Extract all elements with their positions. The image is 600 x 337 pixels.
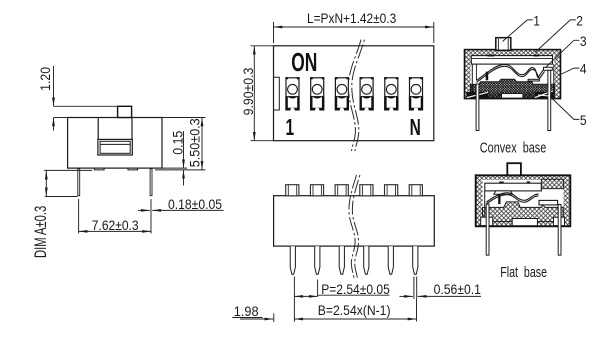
dimension DIM A±0.3 <box>32 170 93 258</box>
slider (side view) <box>98 139 132 155</box>
lid tick left <box>487 55 494 57</box>
svg-text:Flat base: Flat base <box>500 263 547 280</box>
dimension 0.18±0.05 <box>138 196 224 212</box>
top right hatch block <box>541 179 563 189</box>
pin 5 <box>388 246 393 274</box>
cover lid <box>485 183 542 191</box>
dimension 9.90±0.3 <box>240 46 273 141</box>
svg-text:ON: ON <box>291 47 317 76</box>
fixed contact plateau <box>544 67 553 70</box>
svg-text:1.98: 1.98 <box>234 304 259 320</box>
switch position 3 <box>335 77 349 110</box>
base bottom left block <box>466 92 488 98</box>
svg-text:0.56±0.1: 0.56±0.1 <box>434 281 481 297</box>
dimension 1.20 <box>37 66 117 131</box>
svg-text:1: 1 <box>286 115 295 141</box>
switch body (side view) <box>68 118 162 169</box>
svg-text:B=2.54x(N-1): B=2.54x(N-1) <box>318 302 391 318</box>
inner wall left <box>471 64 473 92</box>
mounting feet <box>95 168 138 170</box>
side tab <box>274 77 280 110</box>
dimension 0.15 <box>162 131 187 186</box>
dimension 1.98 <box>232 304 274 322</box>
dimension 7.62±0.3 <box>79 199 151 234</box>
contact blade <box>477 64 545 82</box>
inner wall left <box>484 191 486 217</box>
svg-text:9.90±0.3: 9.90±0.3 <box>240 68 256 116</box>
pin right (section) <box>548 70 551 130</box>
moulded base (dense hatch) <box>471 79 555 97</box>
svg-text:4: 4 <box>580 61 587 77</box>
platform <box>494 191 513 194</box>
svg-text:5: 5 <box>580 112 587 128</box>
svg-text:L=PxN+1.42±0.3: L=PxN+1.42±0.3 <box>307 10 396 26</box>
knob 3 <box>335 185 348 196</box>
pin 6 <box>413 246 418 274</box>
switch position 5 <box>384 77 398 110</box>
svg-text:1.20: 1.20 <box>37 67 53 91</box>
housing shell (hatched) <box>476 175 571 226</box>
switch position 2 <box>310 77 324 110</box>
switch body (front view) <box>274 46 434 141</box>
svg-text:1: 1 <box>533 13 540 29</box>
base center recess <box>502 94 523 99</box>
knob 4 <box>360 185 373 196</box>
slider cavity walls <box>98 118 132 139</box>
cavity <box>471 55 555 92</box>
dimension L=PxN+1.42±0.3 <box>274 10 434 43</box>
base bottom right block <box>535 92 554 98</box>
cover lid <box>471 56 552 65</box>
svg-text:3: 3 <box>580 33 587 49</box>
callout 5 <box>538 95 587 128</box>
switch position 6 <box>409 77 423 110</box>
break line (pin view) <box>349 175 360 278</box>
dimension 5.50±0.3 <box>155 118 206 170</box>
base center recess <box>512 219 537 226</box>
actuator knob (side view) <box>118 106 132 117</box>
dimension B=2.54x(N-1) <box>294 299 416 322</box>
knob 1 <box>286 185 299 196</box>
inner wall right <box>553 64 555 92</box>
svg-text:DIM A±0.3: DIM A±0.3 <box>32 206 51 258</box>
terminal post <box>498 194 500 204</box>
switch position 1 <box>285 77 299 110</box>
dimension 0.56±0.1 <box>400 277 482 300</box>
terminal post <box>486 72 489 81</box>
inner wall left 2 <box>475 64 477 80</box>
switch body (pin view) <box>274 196 435 246</box>
pin 3 <box>339 246 344 274</box>
pin left (section) <box>476 84 479 131</box>
svg-text:7.62±0.3: 7.62±0.3 <box>92 217 139 233</box>
callout 1 <box>503 13 540 42</box>
svg-text:5.50±0.3: 5.50±0.3 <box>187 118 203 167</box>
dimension P=2.54±0.05 <box>294 277 389 322</box>
base corner recess left <box>481 217 493 225</box>
svg-text:0.15: 0.15 <box>170 131 186 155</box>
knob 5 <box>385 185 398 196</box>
pin right (section) <box>558 205 561 256</box>
foot parting line right <box>535 91 553 98</box>
pin left (side view) <box>78 169 80 196</box>
pin right (side view) <box>150 169 152 196</box>
base corner recess right <box>554 217 565 225</box>
callout 2 <box>535 13 583 53</box>
cavity <box>483 180 564 222</box>
pin 1 <box>290 246 295 274</box>
housing shell (hatched) <box>465 50 561 99</box>
actuator knob (section) <box>507 163 521 175</box>
pin 2 <box>315 246 320 274</box>
svg-text:Convex base: Convex base <box>480 139 546 156</box>
foot parting line left <box>467 92 488 97</box>
switch position 4 <box>360 77 374 110</box>
terminal strip <box>528 79 539 81</box>
callout 4 <box>559 61 587 77</box>
fixed contact bracket <box>539 200 558 205</box>
svg-text:0.18±0.05: 0.18±0.05 <box>168 196 222 212</box>
svg-text:P=2.54±0.05: P=2.54±0.05 <box>321 281 390 297</box>
pin 4 <box>364 246 369 274</box>
svg-text:N: N <box>410 115 421 141</box>
actuator knob (section) <box>496 38 511 51</box>
knob 6 <box>409 185 422 196</box>
contact blade <box>486 193 538 204</box>
lid tick <box>499 182 503 184</box>
break line (front view) <box>348 40 364 151</box>
pin left (section) <box>486 204 489 255</box>
callout 3 <box>546 33 587 68</box>
moulded base (hatched) <box>483 202 564 222</box>
lid tick right <box>534 55 539 57</box>
knob 2 <box>310 185 323 196</box>
svg-text:2: 2 <box>576 13 583 29</box>
